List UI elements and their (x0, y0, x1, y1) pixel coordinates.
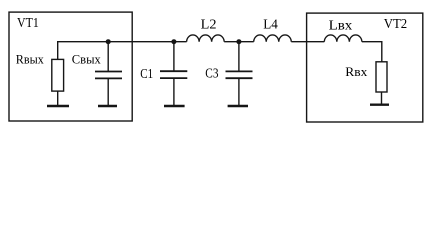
capacitor Свых (95, 72, 122, 79)
wire: Rвых bottom lead (57, 91, 59, 105)
resistor Rвых (52, 59, 64, 91)
svg-text:L4: L4 (263, 18, 278, 33)
svg-text:Lвх: Lвх (329, 18, 353, 33)
svg-text:Rвх: Rвх (345, 64, 368, 79)
wire: C1 bottom lead (173, 78, 175, 105)
ground under Свых (98, 105, 117, 107)
transistor stage box VT1 (9, 12, 132, 121)
inductor L4 (254, 35, 292, 42)
inductor Lвх (324, 35, 362, 42)
inductor L2 (187, 35, 225, 42)
wire: L2 to C3 to L4 (224, 41, 254, 43)
wire: L4 to Lвх (291, 41, 324, 43)
capacitor C1 (160, 71, 187, 78)
wire: C3 bottom lead (238, 78, 240, 105)
ground under Rвых (47, 105, 69, 107)
wire: C3 top lead (238, 42, 240, 71)
wire: C1 top lead (173, 42, 175, 71)
svg-text:Свых: Свых (72, 52, 101, 67)
junction dot node C1 (171, 39, 176, 44)
ground under Rвх (370, 103, 389, 105)
ground under C1 (164, 105, 185, 107)
svg-text:VT2: VT2 (384, 17, 408, 32)
capacitor C3 (226, 71, 253, 78)
svg-text:L2: L2 (201, 17, 217, 32)
wire: Свых top lead (107, 42, 109, 71)
svg-text:C1: C1 (140, 66, 153, 81)
svg-text:Rвых: Rвых (16, 51, 44, 66)
wire: Rвых top elbow to main line, main line to L2 (58, 42, 187, 60)
wire: Rвх bottom lead (381, 92, 383, 104)
resistor Rвх (376, 62, 387, 92)
wire: Lвх to Rвх elbow (362, 42, 382, 62)
ground under C3 (228, 105, 248, 107)
transistor stage box VT2 (307, 13, 423, 122)
junction dot node Свых (106, 39, 111, 44)
wire: Свых bottom lead (107, 78, 109, 105)
junction dot node C3 (236, 39, 241, 44)
svg-text:C3: C3 (205, 66, 218, 81)
svg-text:VT1: VT1 (17, 16, 39, 31)
